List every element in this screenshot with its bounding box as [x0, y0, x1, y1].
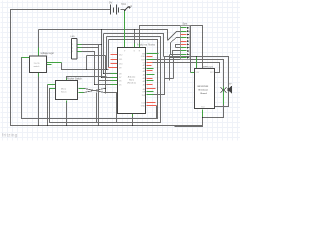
wire box2 left pin down: [47, 85, 49, 126]
IC U1 microcontroller body: [118, 48, 146, 114]
IC U1 pin name text right: [141, 54, 146, 108]
svg-text:D10: D10: [119, 63, 122, 65]
svg-text:D12: D12: [119, 54, 122, 56]
svg-text:Micro: Micro: [61, 88, 67, 91]
wire channel mid vertical x99: [83, 45, 99, 126]
svg-text:3: 3: [72, 51, 73, 53]
svg-text:MF-RC522: MF-RC522: [198, 86, 209, 88]
wire chip bottom gnd: [132, 117, 134, 126]
breakout board U2 pin text: [196, 72, 215, 109]
wire green box1 right pins: [47, 63, 62, 65]
wire box1 right pin1 route: [62, 63, 109, 70]
svg-text:Nano: Nano: [129, 80, 135, 82]
wire green buzzer section: [223, 87, 225, 105]
wire board gnd join: [175, 118, 203, 127]
wire long L1 to board and right side: [164, 57, 229, 107]
module M3 box3 LED bar: [72, 39, 78, 60]
wire net VCC outer loop: [11, 10, 203, 126]
svg-text:D13: D13: [142, 103, 145, 105]
wire net bus B: [50, 37, 161, 123]
wire green chip bottom stub: [132, 114, 134, 117]
svg-text:D9: D9: [119, 68, 121, 70]
svg-text:9V: 9V: [109, 1, 112, 5]
wire green board gnd stub: [202, 110, 204, 118]
svg-text:(Rev3.0): (Rev3.0): [127, 83, 136, 85]
wire green box2 pins: [48, 79, 85, 103]
wire box3 pin routes: [82, 45, 106, 85]
svg-text:A3: A3: [143, 77, 145, 80]
svg-text:2: 2: [72, 48, 73, 50]
svg-text:D11: D11: [119, 59, 122, 61]
buzzer LS1 speaker glyph: [228, 86, 232, 94]
svg-text:D7: D7: [119, 77, 121, 79]
svg-text:LED: LED: [71, 36, 76, 38]
IC U1 top pin text: [124, 51, 141, 53]
wire X crossing right of box2: [84, 89, 117, 123]
svg-text:A4: A4: [143, 74, 145, 77]
connector J1 pin rows: [181, 28, 187, 58]
wire box1 bottom to bus: [38, 77, 40, 126]
wire battery plus to switch: [121, 9, 125, 11]
wire green box3 pins: [78, 45, 82, 52]
wire long L3 board right pin: [153, 63, 220, 73]
wire net bus A left: [22, 40, 158, 119]
svg-text:D5: D5: [119, 85, 121, 87]
svg-text:Arduino Nano: Arduino Nano: [137, 44, 156, 47]
breakout board U2 inner text: [198, 86, 209, 95]
svg-text:Servo: Servo: [61, 90, 67, 93]
wire box1 top feed: [38, 30, 40, 48]
svg-text:Gnd: Gnd: [201, 107, 204, 109]
wire green battery minus down to chip: [124, 11, 126, 48]
svg-text:A6: A6: [143, 67, 145, 70]
svg-text:MFRC522: MFRC522: [203, 67, 214, 69]
wire green box1 top pin: [38, 48, 40, 57]
wire chip top pin2: [134, 30, 136, 44]
wire green box1 left pin: [22, 57, 30, 59]
wire connector feeds: [168, 32, 181, 58]
svg-text:voltage regul: voltage regul: [41, 52, 55, 55]
svg-text:Arduino: Arduino: [128, 76, 136, 79]
svg-text:7-LCD: 7-LCD: [34, 63, 41, 65]
battery BT1: [111, 5, 119, 15]
wire long L2 buzzer feed: [155, 60, 224, 87]
buzzer LS1 X mark: [221, 88, 227, 93]
module M2 inner text: [61, 88, 67, 94]
svg-text:A1: A1: [143, 83, 145, 86]
wire green board left pin: [191, 72, 195, 74]
svg-text:D6: D6: [119, 81, 121, 83]
breakout board U2 body: [195, 69, 215, 109]
svg-text:Breakout: Breakout: [199, 89, 209, 92]
svg-text:Rocker Switch: Rocker Switch: [67, 77, 82, 80]
svg-text:GND: GND: [141, 106, 146, 108]
wire red chip left pins: [109, 55, 118, 68]
module M3 inner marks: [72, 44, 73, 53]
svg-text:3V3: 3V3: [142, 95, 145, 97]
wire chip right dn1: [156, 106, 158, 119]
module M2 box2: [56, 81, 78, 100]
wire box2 top to chip: [67, 77, 107, 81]
svg-text:GND: GND: [141, 56, 146, 58]
connector J1 body: [181, 26, 191, 60]
svg-text:Sym: Sym: [183, 23, 188, 25]
svg-text:D8: D8: [119, 74, 121, 76]
connector J1 pin arrowheads: [187, 27, 190, 59]
svg-text:A2: A2: [143, 80, 145, 83]
module M1 box1: [30, 56, 47, 73]
wire net bus C top long: [39, 30, 168, 74]
module M1 inner text: [34, 63, 41, 68]
svg-text:A7: A7: [143, 64, 145, 67]
wire green box1 bottom pin: [38, 73, 40, 77]
wire net top line to board: [140, 26, 203, 69]
wire channel extras: [154, 55, 174, 95]
wire chip right pin stubs: [147, 54, 159, 106]
svg-text:fritzing: fritzing: [2, 133, 18, 138]
IC U1 pin name text left: [119, 54, 122, 86]
svg-text:SW1: SW1: [121, 3, 127, 6]
wire box2 bottom down: [66, 103, 68, 126]
svg-text:A5: A5: [143, 70, 145, 73]
svg-text:Board: Board: [201, 93, 208, 95]
svg-text:1: 1: [72, 44, 73, 46]
svg-text:switch: switch: [34, 65, 41, 68]
switch S1: [125, 7, 131, 11]
wire chip left green rows: [95, 74, 111, 85]
IC U1 inner labels: [127, 76, 136, 85]
wire green board top pin: [196, 57, 198, 69]
wire green chip left stubs: [111, 74, 118, 85]
wire buzzer to gnd node: [181, 95, 224, 127]
connector J1 right wire down to board: [190, 26, 192, 73]
wire green chip top stubs: [135, 44, 140, 48]
wire channel vertical x105.5: [105, 56, 107, 94]
